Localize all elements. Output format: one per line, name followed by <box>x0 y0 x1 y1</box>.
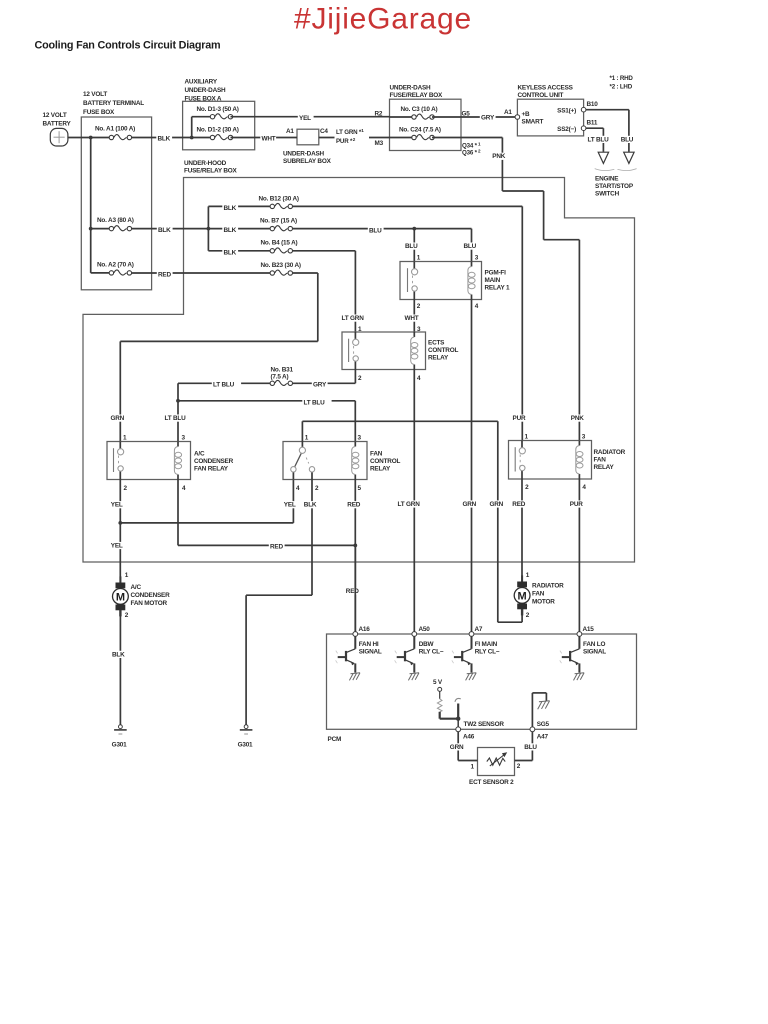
svg-text:PUR: PUR <box>570 501 583 508</box>
svg-text:FI MAIN: FI MAIN <box>475 641 498 648</box>
svg-text:BLK: BLK <box>158 227 171 234</box>
wire A2 to B23, RED <box>132 272 271 274</box>
svg-text:FAN: FAN <box>594 456 607 463</box>
radiator fan relay box <box>509 441 592 480</box>
wire B7 to PGM-FI relay, BLU <box>292 228 471 230</box>
svg-text:UNDER-DASH: UNDER-DASH <box>185 87 227 94</box>
svg-text:A1: A1 <box>504 109 512 116</box>
svg-text:RELAY 1: RELAY 1 <box>485 284 511 291</box>
wire C3 to keyless unit, GRY <box>432 116 515 118</box>
svg-text:CONDENSER: CONDENSER <box>194 458 234 465</box>
PCM pin A15 <box>577 632 582 637</box>
wire branch to D1-3 <box>191 117 193 138</box>
PCM pin A47 <box>530 727 535 732</box>
svg-text:BLU: BLU <box>464 243 477 250</box>
svg-text:MOTOR: MOTOR <box>532 599 555 606</box>
keyless unit pin A1 <box>515 115 520 120</box>
svg-text:RELAY: RELAY <box>428 354 449 361</box>
ECTS relay coil pins 3-4 <box>411 332 418 370</box>
switch hook above TW2 junction <box>457 704 459 719</box>
wire A/C relay pin 2 down, YEL <box>119 480 121 583</box>
keyless unit pin B11 <box>581 126 586 131</box>
row A3 / B7 y=228.6 <box>91 228 110 230</box>
svg-text:BLU: BLU <box>621 136 634 143</box>
wire battery to fuse A1 <box>68 137 109 139</box>
fuse No. C24 (7.5 A) <box>412 135 434 140</box>
wire A3 to branch, BLK <box>132 228 271 230</box>
ECTS control relay box <box>342 332 426 370</box>
svg-text:BLU: BLU <box>369 227 382 234</box>
wire radiator fan motor minus lead <box>521 609 523 622</box>
junction aux box branch <box>190 136 194 140</box>
svg-text:M: M <box>518 590 527 602</box>
PCM pin A50 <box>412 632 417 637</box>
fuse No. D1-2 (30 A) <box>210 135 232 140</box>
svg-text:GRN: GRN <box>111 415 125 422</box>
svg-text:Q34 *: Q34 * <box>462 142 478 149</box>
wire A/C motor to ground G301, BLK <box>119 610 121 724</box>
svg-text:PUR *: PUR * <box>336 138 353 145</box>
svg-text:GRN: GRN <box>463 501 477 508</box>
svg-text:No. D1-2 (30 A): No. D1-2 (30 A) <box>197 126 239 133</box>
PCM pin A7 <box>469 632 474 637</box>
svg-text:G301: G301 <box>238 741 253 748</box>
svg-text:LT GRN: LT GRN <box>398 501 421 508</box>
svg-text:FUSE BOX A: FUSE BOX A <box>185 95 222 102</box>
wire B23 to A/C condenser fan relay pin 1, GRN <box>292 272 317 274</box>
svg-text:FAN HI: FAN HI <box>359 641 379 648</box>
svg-text:FAN: FAN <box>532 591 545 598</box>
fuse No. D1-3 (50 A) <box>210 114 232 119</box>
svg-text:A15: A15 <box>583 626 595 633</box>
engine start/stop switch arrow LT BLU <box>598 152 608 163</box>
svg-text:YEL: YEL <box>284 502 296 509</box>
svg-text:SG5: SG5 <box>537 721 550 728</box>
A/C relay switch pins 1-2 <box>114 442 124 480</box>
under-dash subrelay box <box>297 129 319 145</box>
svg-text:YEL: YEL <box>299 115 311 122</box>
A/C condenser fan relay box <box>107 442 191 480</box>
svg-text:GRY: GRY <box>481 115 495 122</box>
wire B12 to radiator fan relay pin 1, PUR <box>292 205 522 207</box>
svg-text:B11: B11 <box>587 120 598 127</box>
svg-text:CONTROL: CONTROL <box>428 347 458 354</box>
radiator relay switch pins 1-2 <box>515 441 525 480</box>
svg-text:FAN MOTOR: FAN MOTOR <box>131 600 168 607</box>
svg-text:12 VOLT: 12 VOLT <box>43 112 67 119</box>
svg-text:GRN: GRN <box>450 744 464 751</box>
svg-text:5 V: 5 V <box>433 679 443 686</box>
wire PGM-FI pin 2 to ECTS relay pin 3, WHT <box>413 300 415 333</box>
wire B31 to LT BLU column <box>178 382 270 384</box>
svg-text:ECTS: ECTS <box>428 339 445 346</box>
svg-text:ENGINE: ENGINE <box>595 175 619 182</box>
ECT sensor 2 thermistor <box>487 758 505 765</box>
svg-text:UNDER-HOOD: UNDER-HOOD <box>184 160 227 167</box>
svg-text:No. A3 (80 A): No. A3 (80 A) <box>97 217 134 224</box>
svg-text:SWITCH: SWITCH <box>595 191 620 198</box>
svg-text:A47: A47 <box>537 733 549 740</box>
fuse No. A2 (70 A) <box>109 270 131 275</box>
svg-text:12 VOLT: 12 VOLT <box>83 91 107 98</box>
svg-text:No. B12 (30 A): No. B12 (30 A) <box>259 195 299 202</box>
svg-text:YEL: YEL <box>111 542 123 549</box>
svg-text:FAN LO: FAN LO <box>583 641 605 648</box>
svg-text:TW2 SENSOR: TW2 SENSOR <box>464 721 505 728</box>
svg-text:GRN: GRN <box>490 501 504 508</box>
row B12 y=206.4 <box>208 205 270 207</box>
svg-text:C4: C4 <box>320 128 328 135</box>
PCM box outline <box>327 634 637 729</box>
ground G301 (A/C fan motor) <box>114 725 127 734</box>
svg-text:A50: A50 <box>419 626 431 633</box>
svg-text:CONTROL UNIT: CONTROL UNIT <box>518 92 564 99</box>
wire battery box vertical to A3/A2 <box>90 138 92 273</box>
svg-text:UNDER-DASH: UNDER-DASH <box>390 84 432 91</box>
svg-text:ECT SENSOR 2: ECT SENSOR 2 <box>469 779 514 786</box>
svg-text:G5: G5 <box>462 111 471 118</box>
fan control relay SPDT switch pins 1/4/2 <box>291 442 315 480</box>
svg-text:MAIN: MAIN <box>485 277 501 284</box>
svg-text:START/STOP: START/STOP <box>595 183 634 190</box>
svg-text:B10: B10 <box>587 101 599 108</box>
svg-text:CONDENSER: CONDENSER <box>131 592 171 599</box>
fuse No. B31 (7.5 A) <box>270 380 292 385</box>
engine start/stop switch arrow BLU <box>624 152 634 163</box>
svg-text:GRY: GRY <box>313 382 327 389</box>
wire D1-3 to under-dash box, YEL <box>231 116 390 118</box>
wire radiator relay pin 4 to PCM A15, PUR <box>578 479 580 632</box>
svg-text:*2 : LHD: *2 : LHD <box>610 84 633 91</box>
svg-text:No. B23 (30 A): No. B23 (30 A) <box>261 262 301 269</box>
svg-text:(7.5 A): (7.5 A) <box>271 374 289 381</box>
svg-text:BLK: BLK <box>112 651 125 658</box>
svg-text:No. B7 (15 A): No. B7 (15 A) <box>260 218 297 225</box>
svg-text:PNK: PNK <box>571 415 584 422</box>
ECT SENSOR 2 box outline <box>478 748 515 776</box>
wire B4 to ECTS control relay pin 1, LT GRN <box>292 250 355 252</box>
svg-text:RADIATOR: RADIATOR <box>532 583 564 590</box>
wire A46 to ECT sensor 2 pin 1 <box>458 760 477 762</box>
PGM-FI relay switch pins 1-2 <box>408 262 418 300</box>
svg-text:RED: RED <box>347 502 360 509</box>
svg-text:R2: R2 <box>375 110 383 117</box>
svg-text:G301: G301 <box>112 741 127 748</box>
svg-text:SMART: SMART <box>522 119 544 126</box>
svg-text:BLK: BLK <box>304 502 317 509</box>
svg-text:WHT: WHT <box>262 135 276 142</box>
wire fan control pin 5 to PCM A16, RED <box>354 480 356 632</box>
transistor driver A15 <box>560 636 580 672</box>
radiator relay coil pins 3-4 <box>576 441 583 480</box>
svg-text:LT GRN *: LT GRN * <box>336 129 362 136</box>
svg-text:FUSE BOX: FUSE BOX <box>83 109 115 116</box>
svg-text:RLY CL−: RLY CL− <box>475 648 500 655</box>
keyless access control unit box <box>517 99 583 136</box>
transistor driver A50 <box>395 636 415 672</box>
svg-text:CONTROL: CONTROL <box>370 458 400 465</box>
brace under arrows <box>595 169 637 171</box>
PCM pin A16 <box>354 545 356 631</box>
fuse No. B7 (15 A) <box>270 226 292 231</box>
svg-text:BLK: BLK <box>224 227 237 234</box>
svg-text:A/C: A/C <box>194 450 205 457</box>
svg-text:RELAY: RELAY <box>594 464 615 471</box>
wire into fuse C3 <box>390 116 415 118</box>
svg-text:RED: RED <box>512 501 525 508</box>
fan control relay coil pins 3-5 <box>352 442 359 480</box>
TW2 sensor junction <box>456 717 460 721</box>
svg-text:A7: A7 <box>475 626 483 633</box>
svg-text:LT BLU: LT BLU <box>165 415 187 422</box>
radiator fan motor <box>521 575 523 582</box>
wire fuse A1 to aux box, BLK <box>132 137 211 139</box>
svg-text:RELAY: RELAY <box>370 465 391 472</box>
row B4 y=250.8 <box>208 250 270 252</box>
12 volt battery symbol <box>50 128 68 146</box>
svg-text:FUSE/RELAY BOX: FUSE/RELAY BOX <box>184 167 238 174</box>
svg-text:AUXILIARY: AUXILIARY <box>185 79 218 86</box>
wire fan control pin 1 up/over/down to radiator fan motor minus <box>301 421 303 441</box>
ground G301 (fan control relay) <box>240 725 253 734</box>
wire radiator relay pin 2 to radiator fan motor, RED <box>521 479 523 582</box>
svg-text:SIGNAL: SIGNAL <box>583 648 606 655</box>
svg-text:SIGNAL: SIGNAL <box>359 648 382 655</box>
svg-text:RED: RED <box>158 271 171 278</box>
svg-text:A46: A46 <box>463 733 475 740</box>
svg-text:UNDER-DASH: UNDER-DASH <box>283 150 325 157</box>
svg-text:PUR: PUR <box>513 415 526 422</box>
wire ECTS pin 2 to fuse B31, GRY <box>354 370 356 384</box>
fuse No. B12 (30 A) <box>270 203 292 208</box>
wire fan control pin 2 to ground G301, BLK <box>311 480 313 596</box>
12 volt battery terminal fuse box outline <box>81 117 151 290</box>
PCM SG5 chassis ground <box>531 693 533 727</box>
svg-text:No. A2 (70 A): No. A2 (70 A) <box>97 262 134 269</box>
keyless unit pin B10 <box>581 107 586 112</box>
wire SS2 B11, LT BLU <box>586 127 604 129</box>
PCM pin A46 <box>457 719 459 727</box>
svg-text:LT BLU: LT BLU <box>304 399 326 406</box>
svg-text:Cooling Fan Controls Circuit D: Cooling Fan Controls Circuit Diagram <box>35 40 221 52</box>
row A2 / B23 y=273 <box>91 272 110 274</box>
svg-text:Q36 *: Q36 * <box>462 150 478 157</box>
svg-text:LT BLU: LT BLU <box>588 136 610 143</box>
svg-text:+B: +B <box>522 111 531 118</box>
wire SS1 B10 to engine start/stop switch, BLU <box>586 109 629 111</box>
wire A47 to ECT sensor 2 pin 2 <box>515 760 533 762</box>
svg-text:BLK: BLK <box>224 205 237 212</box>
svg-text:BATTERY TERMINAL: BATTERY TERMINAL <box>83 100 144 107</box>
svg-text:BATTERY: BATTERY <box>43 121 72 128</box>
branch vertical for B12/B4 <box>207 206 209 250</box>
wire into fuse C24 <box>390 137 415 139</box>
svg-text:BLK: BLK <box>224 249 237 256</box>
PGM-FI main relay 1 box <box>400 262 482 300</box>
fuse No. B23 (30 A) <box>270 270 292 275</box>
svg-text:No. D1-3 (50 A): No. D1-3 (50 A) <box>197 106 239 113</box>
svg-text:A1: A1 <box>286 128 294 135</box>
wire BLU to PGM-FI pin 3 <box>471 229 473 262</box>
svg-text:SS2(−): SS2(−) <box>557 126 576 133</box>
svg-text:KEYLESS ACCESS: KEYLESS ACCESS <box>518 84 574 91</box>
svg-text:FAN: FAN <box>370 450 383 457</box>
transistor driver A16 <box>336 636 356 672</box>
wire LT BLU branch to fan control relay pin 3 <box>178 400 355 402</box>
svg-text:FUSE/RELAY BOX: FUSE/RELAY BOX <box>390 92 444 99</box>
svg-text:*1 : RHD: *1 : RHD <box>610 75 634 82</box>
svg-text:M: M <box>116 591 125 603</box>
svg-text:No. C3 (10 A): No. C3 (10 A) <box>401 106 438 113</box>
wire PGM-FI pin 4 to PCM A7, GRN <box>471 300 473 632</box>
svg-text:RADIATOR: RADIATOR <box>594 449 626 456</box>
svg-text:BLU: BLU <box>405 243 418 250</box>
svg-text:FAN RELAY: FAN RELAY <box>194 465 229 472</box>
under-dash fuse/relay box outline <box>390 99 462 150</box>
svg-text:A16: A16 <box>359 626 371 633</box>
wire subrelay to under-dash box, LT GRN/PUR <box>319 137 390 139</box>
svg-text:BLK: BLK <box>158 135 171 142</box>
svg-text:WHT: WHT <box>405 315 419 322</box>
wire C24 out, PNK staircase to radiator fan relay pin 3 <box>432 137 502 139</box>
wire ECTS pin 4 to PCM A50, LT GRN <box>413 370 415 632</box>
transistor driver A7 <box>452 636 472 672</box>
svg-text:BLU: BLU <box>524 744 537 751</box>
fuse No. A1 (100 A) <box>109 135 131 140</box>
under-hood fuse/relay box outline (L-shaped) <box>83 178 635 563</box>
svg-text:PCM: PCM <box>328 736 342 743</box>
ECTS relay switch pins 1-2 <box>349 332 359 370</box>
svg-text:LT BLU: LT BLU <box>213 382 235 389</box>
svg-text:LT GRN: LT GRN <box>342 315 365 322</box>
svg-text:No. B4 (15 A): No. B4 (15 A) <box>261 240 298 247</box>
fuse No. A3 (80 A) <box>109 226 131 231</box>
auxiliary under-dash fuse box A outline <box>183 101 255 150</box>
svg-text:A/C: A/C <box>131 584 142 591</box>
wire YEL branch to fan control relay pin 4 <box>120 522 293 524</box>
svg-text:RLY CL−: RLY CL− <box>419 648 444 655</box>
wire branch BLU to PGM-FI pin 1 <box>413 229 415 262</box>
wire A/C relay pin 4 to RED junction <box>177 480 179 546</box>
svg-text:No. B31: No. B31 <box>271 366 294 373</box>
svg-text:No. C24 (7.5 A): No. C24 (7.5 A) <box>399 127 441 134</box>
svg-text:YEL: YEL <box>111 502 123 509</box>
svg-text:RED: RED <box>270 544 283 551</box>
svg-text:DBW: DBW <box>419 641 435 648</box>
svg-text:RED: RED <box>346 588 359 595</box>
junction battery box vertical <box>89 136 93 140</box>
wire D1-2 to subrelay box, WHT <box>231 137 298 139</box>
svg-text:No. A1 (100 A): No. A1 (100 A) <box>95 126 135 133</box>
fuse No. C3 (10 A) <box>412 114 434 119</box>
svg-text:PGM-FI: PGM-FI <box>485 269 507 276</box>
fuse No. B4 (15 A) <box>270 248 292 253</box>
svg-text:SUBRELAY BOX: SUBRELAY BOX <box>283 158 332 165</box>
A/C relay coil pins 3-4 <box>174 442 181 480</box>
fan control relay box <box>283 442 367 480</box>
svg-text:M3: M3 <box>375 140 384 147</box>
svg-text:SS1(+): SS1(+) <box>557 107 576 114</box>
svg-text:PNK: PNK <box>492 153 505 160</box>
svg-text:#JijieGarage: #JijieGarage <box>294 3 472 36</box>
A/C condenser fan motor <box>119 576 121 583</box>
PGM-FI relay coil pins 3-4 <box>468 262 475 300</box>
